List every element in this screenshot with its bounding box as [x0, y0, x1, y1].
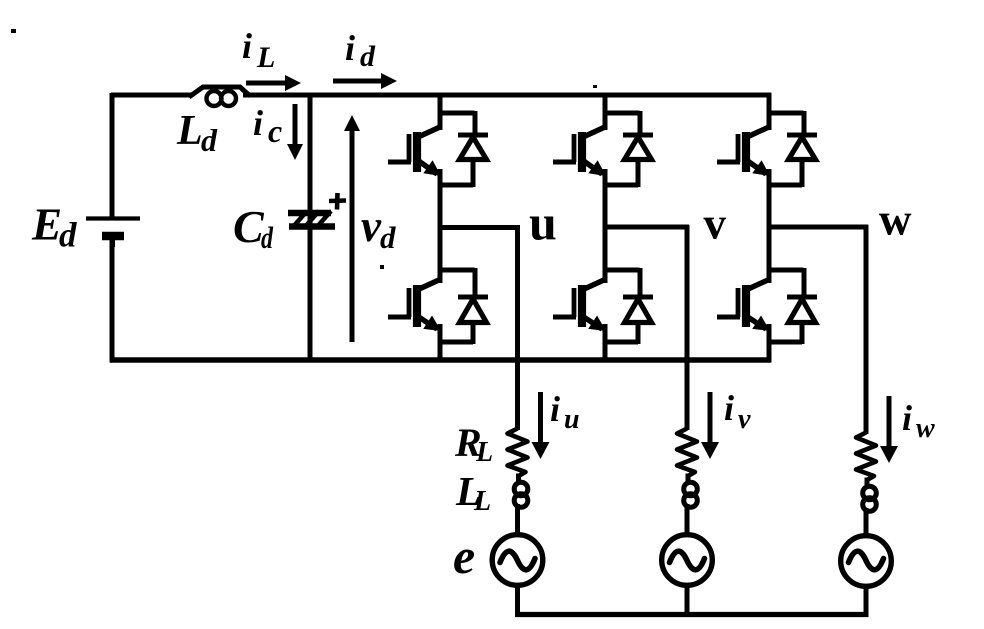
label Cd [233, 201, 273, 255]
diode antiparallel of Q3 (upper, phase w) [767, 111, 817, 187]
svg-text:c: c [268, 113, 282, 149]
label iL [242, 26, 275, 74]
label RL [454, 420, 493, 468]
svg-text:L: L [473, 486, 491, 517]
diode antiparallel of Q6 (lower, phase w) [767, 268, 817, 344]
transistor IGBT Q1 (upper, phase u) [388, 93, 441, 230]
capacitor Cd [288, 211, 335, 228]
diode antiparallel of Q1 (upper, phase u) [438, 111, 488, 187]
wire w coil to source [864, 515, 869, 538]
wire v below source [685, 584, 690, 617]
arrow ic [287, 104, 303, 160]
ac source e phase w [841, 536, 892, 587]
svg-text:L: L [176, 108, 203, 154]
inductor load phase w [863, 486, 877, 518]
wire node w [767, 225, 868, 230]
label LL [455, 468, 491, 517]
wire phase v drop [685, 225, 690, 430]
transistor IGBT Q2 (upper, phase v) [553, 93, 606, 230]
inductor load phase v [684, 482, 698, 514]
wire bottom DC rail [110, 357, 772, 362]
label w [879, 195, 912, 245]
inductor load phase u [514, 482, 528, 514]
wire node v [603, 225, 689, 230]
svg-text:i: i [345, 28, 355, 68]
diode antiparallel of Q2 (upper, phase v) [603, 111, 653, 187]
svg-text:E: E [31, 200, 62, 250]
ac source e phase v [662, 535, 713, 586]
scan speck top-left [11, 29, 16, 33]
wire v coil to source [685, 511, 690, 537]
svg-text:w: w [879, 195, 912, 245]
wire left branch (Ed bottom) [110, 238, 115, 362]
label e [453, 528, 475, 584]
svg-text:u: u [564, 404, 580, 435]
wire left branch (Ed top) [110, 93, 115, 219]
wire top DC rail (node A to leg u) [308, 93, 443, 98]
svg-text:i: i [253, 103, 263, 143]
arrow iv [701, 392, 719, 459]
label Ld [176, 108, 218, 158]
label iu [550, 389, 580, 435]
transistor IGBT Q4 (lower, phase u) [388, 225, 441, 362]
wire u resistor to coil [516, 474, 521, 484]
transistor IGBT Q5 (lower, phase v) [553, 225, 606, 362]
arrow iw [880, 396, 898, 463]
svg-text:d: d [380, 220, 396, 255]
scan speck mid [380, 265, 384, 269]
label iw [902, 398, 935, 444]
svg-text:u: u [529, 195, 557, 251]
wire w below source [864, 585, 869, 617]
svg-text:i: i [724, 388, 734, 428]
wire bottom load rail [515, 612, 868, 617]
battery Ed negative plate [102, 236, 124, 247]
label u [529, 195, 557, 251]
wire v resistor to coil [686, 474, 691, 484]
svg-text:i: i [902, 398, 912, 438]
wire top DC rail (leg u to leg v) [438, 93, 608, 98]
wire phase u drop [515, 225, 520, 430]
inductor Ld [189, 87, 250, 106]
svg-text:v: v [704, 199, 727, 249]
svg-text:d: d [360, 40, 376, 73]
scan speck rail [593, 85, 597, 88]
arrow id [333, 73, 397, 89]
battery Ed positive plate [86, 216, 140, 220]
wire top DC rail (left segment into inductor) [111, 93, 191, 98]
svg-text:i: i [550, 389, 560, 429]
wire w resistor to coil [865, 478, 870, 488]
label iv [724, 388, 751, 435]
label v [704, 199, 727, 249]
arrow vd (voltage across dc link) [344, 115, 360, 342]
svg-text:i: i [242, 26, 252, 66]
svg-text:L: L [475, 437, 493, 468]
svg-text:L: L [256, 41, 275, 74]
ac source e phase u [492, 535, 543, 586]
svg-text:d: d [59, 216, 77, 255]
arrow iL [246, 75, 301, 91]
label vd [361, 201, 396, 255]
transistor IGBT Q3 (upper, phase w) [717, 93, 770, 230]
wire u below source [515, 584, 520, 617]
wire top DC rail (leg v to leg w) [603, 93, 771, 98]
label id [345, 28, 376, 73]
label + polarity of Cd [329, 193, 346, 210]
label ic [253, 103, 282, 149]
arrow iu [532, 392, 550, 459]
svg-text:d: d [201, 122, 218, 158]
svg-text:w: w [916, 413, 935, 444]
resistor load phase u [508, 429, 528, 477]
diode antiparallel of Q5 (lower, phase v) [603, 268, 653, 344]
diode antiparallel of Q4 (lower, phase u) [438, 268, 488, 344]
wire phase w drop [864, 225, 869, 434]
wire top DC rail (inductor to node A) [243, 93, 313, 98]
svg-text:v: v [361, 201, 382, 251]
wire node u [438, 225, 520, 230]
node A junction (Cd top) [308, 93, 313, 97]
transistor IGBT Q6 (lower, phase w) [717, 225, 770, 362]
resistor load phase w [856, 433, 876, 481]
resistor load phase v [677, 429, 697, 477]
label Ed [31, 200, 77, 255]
wire u coil to source [515, 511, 520, 537]
svg-text:v: v [738, 404, 751, 435]
wire Cd branch [308, 93, 313, 362]
svg-text:d: d [261, 220, 273, 255]
svg-text:e: e [453, 528, 475, 584]
